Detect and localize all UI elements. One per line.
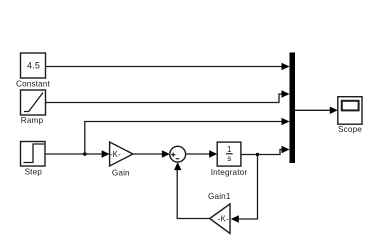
gain block Gain	[110, 142, 133, 177]
scope block Scope	[338, 97, 362, 134]
sum block Sum	[170, 146, 186, 162]
mux bar Mux	[290, 53, 296, 164]
wire Mux to Scope	[295, 107, 338, 114]
svg-text:Gain1: Gain1	[208, 192, 231, 201]
svg-text:Gain: Gain	[112, 168, 130, 177]
wire Step to Gain input	[45, 150, 110, 157]
svg-text:Scope: Scope	[338, 125, 362, 134]
svg-text:4.5: 4.5	[27, 61, 40, 71]
gain block Gain1	[208, 192, 231, 234]
wire branch up to Mux port3	[85, 118, 290, 154]
wire Gain to Sum	[133, 150, 170, 157]
wire Integrator to Mux port4	[241, 146, 290, 155]
step block Step	[21, 142, 46, 177]
wire Sum to Integrator	[186, 150, 218, 157]
svg-text:Integrator: Integrator	[211, 168, 248, 177]
constant block Constant	[16, 53, 51, 89]
wire feedback down to Gain1	[231, 155, 258, 223]
junction node at Step branch	[83, 152, 87, 156]
junction node after Integrator	[256, 153, 260, 157]
wire Ramp to Mux port2	[46, 90, 290, 102]
svg-text:Step: Step	[25, 168, 43, 177]
svg-text:Ramp: Ramp	[21, 116, 44, 125]
svg-text:s: s	[227, 154, 231, 163]
wire Gain1 to Sum bottom	[174, 162, 210, 218]
svg-text:-K-: -K-	[110, 150, 121, 159]
svg-text:1: 1	[227, 145, 232, 154]
wire Constant to Mux port1	[46, 63, 290, 70]
svg-text:-K-: -K-	[218, 214, 229, 223]
svg-text:Constant: Constant	[16, 80, 51, 89]
integrator block Integrator	[211, 142, 248, 177]
ramp block Ramp	[21, 90, 46, 125]
